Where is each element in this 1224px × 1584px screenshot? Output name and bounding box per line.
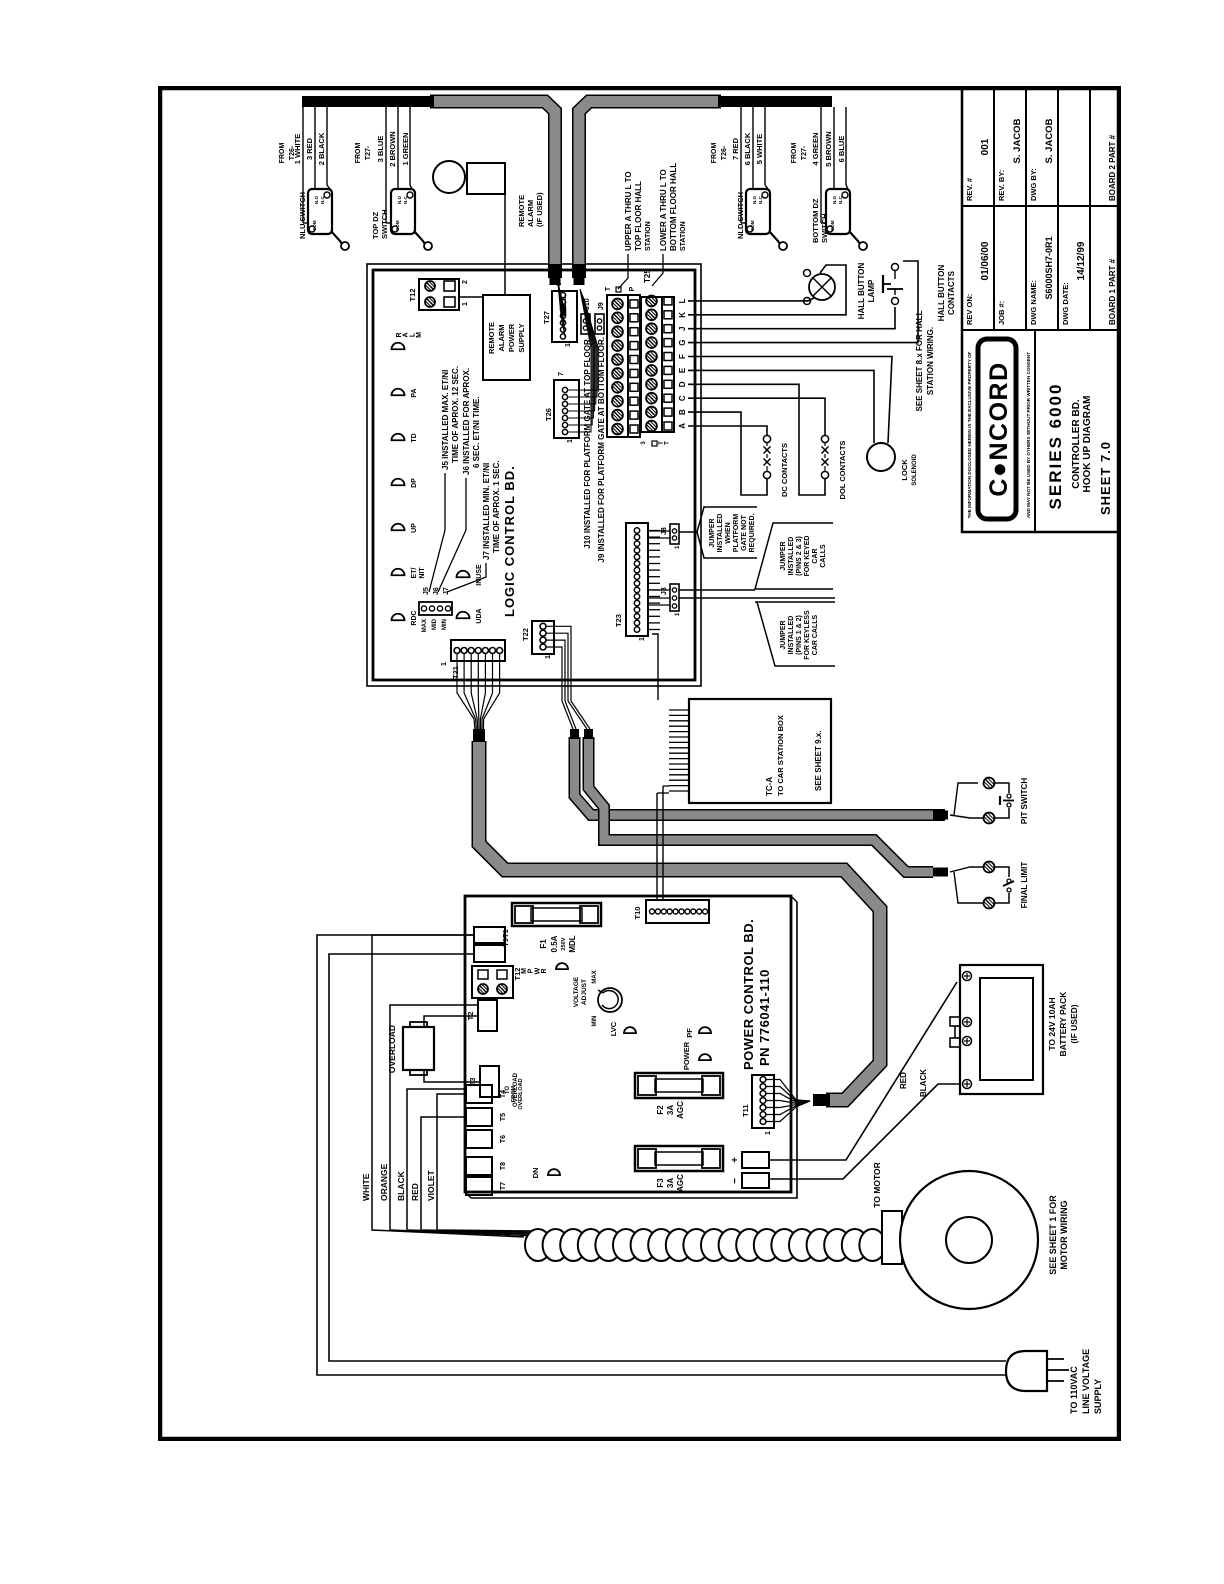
svg-text:HOOK UP DIAGRAM: HOOK UP DIAGRAM <box>1082 395 1093 492</box>
svg-text:REMOTE: REMOTE <box>487 322 496 354</box>
svg-text:LAMP: LAMP <box>867 279 876 302</box>
LED UDA <box>457 608 484 623</box>
wires T10 to TCA <box>657 786 669 900</box>
svg-text:TD: TD <box>411 433 418 442</box>
jumper block J5 J6 J7 <box>419 587 452 632</box>
border frame <box>160 88 1119 1439</box>
TC-A car station box <box>669 699 831 803</box>
note J5 <box>429 366 460 592</box>
svg-text:BOTTOM FLOOR HALL: BOTTOM FLOOR HALL <box>669 163 678 251</box>
svg-text:7 RED: 7 RED <box>731 137 740 160</box>
switch TOP DZ <box>355 107 432 250</box>
svg-text:(IF USED): (IF USED) <box>535 192 544 227</box>
svg-text:DN: DN <box>531 1168 540 1179</box>
terminal strip TDP <box>605 286 640 437</box>
jumper J3 <box>648 584 681 616</box>
svg-text:TC-A: TC-A <box>765 777 774 796</box>
svg-text:UDA: UDA <box>476 608 483 623</box>
svg-text:SOLENOID: SOLENOID <box>912 454 918 486</box>
svg-text:OVERLOAD: OVERLOAD <box>387 1025 397 1073</box>
svg-text:250V: 250V <box>561 937 567 950</box>
svg-text:N.O: N.O <box>314 196 319 205</box>
svg-text:J5 INSTALLED MAX. ET/NI: J5 INSTALLED MAX. ET/NI <box>441 370 450 470</box>
svg-text:T10: T10 <box>633 907 642 920</box>
hall button lamp <box>804 262 877 319</box>
svg-text:HALL BUTTON: HALL BUTTON <box>857 262 866 319</box>
svg-text:0.5A: 0.5A <box>550 935 559 952</box>
leader LOWER hall station <box>652 163 687 286</box>
svg-text:TO 110VAC: TO 110VAC <box>1069 1366 1079 1414</box>
wire F to lock solenoid <box>688 357 892 444</box>
svg-text:MAX: MAX <box>592 970 598 983</box>
svg-text:FROM: FROM <box>711 143 718 164</box>
svg-text:WHEN: WHEN <box>725 522 732 543</box>
svg-text:DP: DP <box>411 478 418 488</box>
svg-text:DOL CONTACTS: DOL CONTACTS <box>838 441 847 500</box>
svg-text:(IF USED): (IF USED) <box>1069 1004 1079 1043</box>
title SERIES 6000 <box>1046 383 1113 515</box>
wire RED <box>410 1117 533 1233</box>
svg-text:T27-: T27- <box>801 145 808 160</box>
svg-text:3A: 3A <box>666 1105 675 1115</box>
terminal T5 <box>466 1108 507 1126</box>
svg-text:J: J <box>678 326 687 330</box>
LED DP <box>392 478 419 488</box>
svg-text:OVERLOAD: OVERLOAD <box>518 1078 524 1109</box>
connector T26 <box>544 372 579 443</box>
svg-text:DWG NAME:: DWG NAME: <box>1029 280 1038 325</box>
leader UPPER hall station <box>618 171 652 289</box>
svg-text:2 BLACK: 2 BLACK <box>317 132 326 165</box>
svg-text:TOP FLOOR HALL: TOP FLOOR HALL <box>634 181 643 251</box>
svg-text:N.O: N.O <box>752 196 757 205</box>
svg-text:3 BLUE: 3 BLUE <box>376 136 385 163</box>
svg-text:ADJUST: ADJUST <box>581 979 588 1005</box>
svg-text:VOLTAGE: VOLTAGE <box>573 976 580 1007</box>
svg-text:(PINS 2 & 3): (PINS 2 & 3) <box>796 536 803 576</box>
wire J3 down <box>679 590 835 598</box>
svg-text:INUSE: INUSE <box>476 564 483 586</box>
gray bus 1 <box>430 102 555 286</box>
note J7 <box>447 460 501 592</box>
svg-text:1: 1 <box>545 655 552 659</box>
terminal T8 <box>466 1157 507 1175</box>
svg-text:P: P <box>629 286 636 291</box>
svg-text:BLACK: BLACK <box>919 1069 928 1097</box>
svg-text:SHEET 7.0: SHEET 7.0 <box>1098 441 1113 515</box>
wire supply to alarm <box>459 194 505 297</box>
LED PA <box>392 388 419 397</box>
svg-text:−: − <box>730 1178 741 1184</box>
svg-text:J9 INSTALLED FOR PLATFORM GATE: J9 INSTALLED FOR PLATFORM GATE AT BOTTOM… <box>597 337 606 563</box>
battery wire red <box>769 982 957 1160</box>
svg-text:MOTOR WIRING: MOTOR WIRING <box>1059 1200 1069 1269</box>
svg-text:F2: F2 <box>656 1105 665 1115</box>
overload device <box>387 1022 434 1075</box>
logic control board outline <box>367 264 701 686</box>
svg-text:LOWER A THRU L TO: LOWER A THRU L TO <box>659 169 668 251</box>
svg-text:6: 6 <box>556 282 563 286</box>
svg-text:SERIES 6000: SERIES 6000 <box>1046 383 1065 510</box>
svg-text:T23: T23 <box>614 614 623 627</box>
svg-text:NLU SWITCH: NLU SWITCH <box>298 192 307 239</box>
svg-text:JUMPER: JUMPER <box>780 541 787 570</box>
svg-text:POWER: POWER <box>682 1041 691 1070</box>
svg-text:B: B <box>678 409 687 415</box>
svg-text:WHITE: WHITE <box>361 1173 371 1201</box>
svg-text:J6 INSTALLED FOR APROX.: J6 INSTALLED FOR APROX. <box>462 368 471 475</box>
svg-text:FOR KEYLESS: FOR KEYLESS <box>804 610 811 660</box>
svg-text:TOP DZ: TOP DZ <box>371 211 380 239</box>
gray bus B <box>589 729 949 872</box>
power cord <box>317 935 1006 1375</box>
terminal battery minus <box>730 1173 769 1188</box>
wire G to hall contacts <box>688 261 918 343</box>
black bus upper <box>302 96 434 107</box>
svg-text:(PINS 1 & 2): (PINS 1 & 2) <box>796 615 803 655</box>
LED RDC <box>392 610 419 625</box>
remote alarm bell <box>433 161 544 227</box>
wire E to lock solenoid <box>688 370 874 443</box>
jumper J9 <box>595 302 606 563</box>
svg-text:POWER CONTROL BD.: POWER CONTROL BD. <box>741 919 756 1070</box>
svg-text:J9: J9 <box>598 302 605 310</box>
svg-text:E: E <box>678 367 687 373</box>
svg-text:CALLS: CALLS <box>820 544 827 568</box>
svg-text:F3: F3 <box>656 1178 665 1188</box>
wire C to DOL contacts <box>688 398 825 435</box>
connector T22 <box>521 621 554 659</box>
connector T23 <box>614 523 660 641</box>
svg-text:3 RED: 3 RED <box>305 137 314 160</box>
svg-text:FROM: FROM <box>279 143 286 164</box>
svg-text:ORANGE: ORANGE <box>379 1163 389 1201</box>
svg-text:SUPPLY: SUPPLY <box>1093 1379 1103 1414</box>
svg-text:BOARD 2 PART #: BOARD 2 PART # <box>1108 134 1117 201</box>
LED MPWR <box>521 963 568 974</box>
svg-text:TIME OF APROX. 12 SEC.: TIME OF APROX. 12 SEC. <box>451 366 460 463</box>
svg-text:CAR CALLS: CAR CALLS <box>812 614 819 655</box>
svg-text:FROM: FROM <box>355 143 362 164</box>
svg-text:FROM: FROM <box>511 1085 517 1102</box>
note J6 <box>438 368 481 592</box>
wire overload to T2 <box>424 1016 478 1027</box>
jumper J10 <box>581 298 592 549</box>
switch NLU <box>279 107 349 250</box>
svg-text:STATION: STATION <box>645 221 652 251</box>
svg-text:C: C <box>678 395 687 401</box>
svg-text:ALARM: ALARM <box>526 200 535 227</box>
wire B return DC <box>688 412 767 495</box>
CONCORD logo <box>967 339 1031 519</box>
svg-text:S. JACOB: S. JACOB <box>1012 118 1023 163</box>
svg-text:T12: T12 <box>408 289 417 302</box>
svg-text:14/12/99: 14/12/99 <box>1076 241 1087 280</box>
svg-text:1 WHITE: 1 WHITE <box>293 134 302 164</box>
svg-text:CONTROLLER BD.: CONTROLLER BD. <box>1071 399 1082 489</box>
svg-text:SWITCH: SWITCH <box>820 213 829 243</box>
switch NLD <box>711 107 787 250</box>
svg-text:T26-: T26- <box>721 145 728 160</box>
svg-text:LINE VOLTAGE: LINE VOLTAGE <box>1081 1349 1091 1414</box>
balloon jumper platform gate <box>679 507 757 558</box>
svg-text:T27: T27 <box>542 311 551 324</box>
svg-text:JUMPER: JUMPER <box>709 518 716 547</box>
svg-text:1 GREEN: 1 GREEN <box>401 133 410 166</box>
svg-text:BOARD 1 PART #: BOARD 1 PART # <box>1108 258 1117 325</box>
svg-text:LVC: LVC <box>609 1021 618 1036</box>
fan bus1 to T27 <box>558 283 566 337</box>
balloon keyed car calls <box>755 523 833 589</box>
svg-text:001: 001 <box>980 138 991 155</box>
wire A to DC contacts <box>688 426 767 435</box>
svg-text:PLATFORM: PLATFORM <box>733 514 740 553</box>
svg-text:T8: T8 <box>500 1162 507 1170</box>
svg-text:MDL: MDL <box>568 935 577 952</box>
wire overload to T3 <box>424 1070 480 1082</box>
svg-text:J7 INSTALLED MIN. ET/NI: J7 INSTALLED MIN. ET/NI <box>482 463 491 560</box>
svg-text:REV. #: REV. # <box>965 177 974 201</box>
LED UP <box>392 523 419 533</box>
svg-text:T25: T25 <box>643 269 652 283</box>
svg-text:STATION WIRING.: STATION WIRING. <box>926 327 935 395</box>
LED LVC <box>609 1021 636 1036</box>
svg-text:G: G <box>678 339 687 345</box>
svg-text:INSTALLED: INSTALLED <box>717 514 724 553</box>
svg-text:REQUIRED.: REQUIRED. <box>749 514 756 553</box>
terminal battery plus <box>730 1152 769 1168</box>
terminal T7 <box>466 1177 507 1195</box>
svg-text:N.C: N.C <box>403 196 408 205</box>
terminal strip T25 <box>641 269 687 446</box>
svg-text:CAR: CAR <box>812 548 819 563</box>
svg-text:COM: COM <box>830 220 835 231</box>
jumper J8 <box>648 524 681 549</box>
svg-text:SEE SHEET 9.x.: SEE SHEET 9.x. <box>814 731 823 791</box>
LED PF <box>685 1027 711 1038</box>
svg-text:+: + <box>730 1157 741 1163</box>
svg-text:T22: T22 <box>521 628 530 641</box>
LED TD <box>392 433 419 442</box>
svg-text:1: 1 <box>565 343 572 347</box>
LED DN <box>531 1168 560 1179</box>
svg-text:SEE SHEET 1 FOR: SEE SHEET 1 FOR <box>1048 1195 1058 1275</box>
gray bus A <box>575 729 949 815</box>
svg-text:UP: UP <box>411 523 418 533</box>
hall button contacts <box>883 264 956 322</box>
LED INUSE <box>457 564 484 586</box>
svg-text:TO MOTOR: TO MOTOR <box>872 1162 882 1208</box>
title block grid <box>962 88 1119 532</box>
DC contacts <box>763 435 789 497</box>
svg-text:FOR KEYED: FOR KEYED <box>804 536 811 577</box>
svg-text:ET/: ET/ <box>411 568 418 579</box>
svg-text:R: R <box>541 968 548 973</box>
svg-text:T21: T21 <box>451 666 460 679</box>
svg-text:AGC: AGC <box>676 1101 685 1119</box>
power control board outline <box>465 896 797 1198</box>
svg-text:5 WHITE: 5 WHITE <box>755 134 764 164</box>
svg-text:RED: RED <box>899 1072 908 1089</box>
battery pack <box>950 965 1079 1094</box>
svg-text:BOTTOM DZ: BOTTOM DZ <box>811 198 820 243</box>
svg-text:BLACK: BLACK <box>396 1170 406 1201</box>
svg-text:DWG DATE:: DWG DATE: <box>1061 282 1070 325</box>
svg-text:1: 1 <box>639 637 646 641</box>
svg-text:K: K <box>678 312 687 318</box>
svg-text:1: 1 <box>765 1131 772 1135</box>
svg-text:T26: T26 <box>544 408 553 421</box>
svg-text:SEE SHEET 8.x FOR HALL: SEE SHEET 8.x FOR HALL <box>915 310 924 411</box>
svg-text:AND MAY NOT BE USED BY OTHERS: AND MAY NOT BE USED BY OTHERS WITHOUT PR… <box>1026 352 1031 518</box>
svg-text:1: 1 <box>462 302 469 306</box>
connector T11 <box>741 1075 774 1135</box>
svg-text:M: M <box>416 332 423 338</box>
svg-text:J10: J10 <box>584 298 591 310</box>
terminal T4 <box>466 1078 524 1109</box>
wire ORANGE <box>379 1005 527 1236</box>
remote alarm power supply <box>483 295 530 380</box>
pit switch <box>950 778 1029 825</box>
connector T27 <box>542 282 577 347</box>
svg-text:PA: PA <box>411 388 418 397</box>
svg-text:THE INFORMATION DISCLOSED HERE: THE INFORMATION DISCLOSED HEREIN IS THE … <box>967 351 972 518</box>
gray bus C <box>479 729 880 1100</box>
black bus lower <box>718 96 832 107</box>
wire T23 to TCA <box>652 634 658 700</box>
svg-text:T7: T7 <box>500 1182 507 1190</box>
svg-text:NIT: NIT <box>419 567 426 579</box>
plug 110VAC <box>1006 1349 1103 1414</box>
svg-text:UPPER A THRU L TO: UPPER A THRU L TO <box>624 171 633 251</box>
wire J to hall contacts <box>688 307 895 329</box>
svg-text:F: F <box>678 354 687 359</box>
svg-text:REV. BY:: REV. BY: <box>997 170 1006 201</box>
lock solenoid <box>867 443 918 486</box>
svg-text:5 BROWN: 5 BROWN <box>824 131 833 166</box>
svg-text:MAX: MAX <box>422 619 428 632</box>
fuse F2 <box>635 1073 723 1119</box>
LED RALM <box>392 332 423 349</box>
svg-text:1: 1 <box>675 612 681 616</box>
svg-text:COM: COM <box>395 220 400 231</box>
svg-text:PIT SWITCH: PIT SWITCH <box>1020 778 1029 824</box>
svg-text:TIME OF APROX. 1 SEC.: TIME OF APROX. 1 SEC. <box>492 460 501 553</box>
svg-text:6 BLACK: 6 BLACK <box>743 132 752 165</box>
svg-text:BATTERY PACK: BATTERY PACK <box>1058 991 1068 1057</box>
svg-text:JOB #:: JOB #: <box>997 301 1006 325</box>
LED POWER <box>682 1041 711 1070</box>
svg-text:DWG BY:: DWG BY: <box>1029 168 1038 201</box>
title text REV ON <box>965 236 1117 325</box>
svg-text:MIN: MIN <box>592 1016 598 1027</box>
svg-text:S. JACOB: S. JACOB <box>1044 118 1055 163</box>
svg-text:HALL BUTTON: HALL BUTTON <box>937 264 946 321</box>
fuse F3 <box>635 1146 723 1192</box>
svg-text:N.O: N.O <box>832 196 837 205</box>
svg-text:01/06/00: 01/06/00 <box>980 241 991 280</box>
fan T21 to bus C <box>457 654 500 730</box>
svg-text:N.C: N.C <box>320 196 325 205</box>
terminal T9T1 <box>474 927 510 962</box>
svg-text:RED: RED <box>410 1183 420 1201</box>
terminal T6 <box>466 1130 507 1148</box>
svg-text:T11: T11 <box>741 1104 750 1117</box>
svg-text:VIOLET: VIOLET <box>426 1169 436 1201</box>
svg-text:T6: T6 <box>500 1135 507 1143</box>
svg-text:1: 1 <box>441 662 448 666</box>
svg-text:F1: F1 <box>539 939 548 949</box>
title text REV# <box>965 118 1117 201</box>
svg-text:C●NCORD: C●NCORD <box>985 361 1013 496</box>
wire WHITE <box>361 935 524 1237</box>
svg-text:TO CAR STATION BOX: TO CAR STATION BOX <box>776 715 785 796</box>
fan T11 to bus C <box>766 1080 810 1122</box>
svg-text:N.O: N.O <box>397 196 402 205</box>
svg-text:1: 1 <box>675 545 681 549</box>
note see sheet 8x <box>915 310 935 411</box>
svg-text:INSTALLED: INSTALLED <box>788 616 795 655</box>
final limit switch <box>950 862 1029 909</box>
svg-text:NLD SWITCH: NLD SWITCH <box>736 192 745 239</box>
battery wire black <box>769 1069 960 1179</box>
svg-text:MIN: MIN <box>442 619 448 630</box>
svg-text:STATION: STATION <box>680 221 687 251</box>
connector T10 <box>633 900 709 923</box>
svg-text:GATE NOT: GATE NOT <box>741 514 748 550</box>
terminal T12 power <box>472 966 522 998</box>
svg-text:FROM: FROM <box>791 143 798 164</box>
svg-text:LOCK: LOCK <box>900 459 909 481</box>
svg-text:FINAL LIMIT: FINAL LIMIT <box>1020 862 1029 909</box>
svg-text:DC CONTACTS: DC CONTACTS <box>780 443 789 497</box>
svg-text:T27-: T27- <box>365 145 372 160</box>
svg-text:INSTALLED: INSTALLED <box>788 537 795 576</box>
wire BLACK <box>396 1089 530 1234</box>
svg-text:CONTACTS: CONTACTS <box>947 270 956 315</box>
svg-text:COM: COM <box>750 220 755 231</box>
wire VIOLET <box>426 1094 536 1231</box>
svg-text:3A: 3A <box>666 1178 675 1188</box>
svg-text:6 SEC. ET/NI TIME.: 6 SEC. ET/NI TIME. <box>472 396 481 468</box>
svg-text:POWER: POWER <box>507 323 516 352</box>
svg-text:T4: T4 <box>500 1090 507 1098</box>
switch BOTTOM DZ <box>791 107 867 250</box>
label LOGIC CONTROL BD. <box>502 465 517 617</box>
svg-text:SUPPLY: SUPPLY <box>517 323 526 352</box>
svg-text:S6000SH7-0R1: S6000SH7-0R1 <box>1044 236 1054 299</box>
svg-text:6 BLUE: 6 BLUE <box>837 136 846 163</box>
svg-text:D: D <box>678 381 687 387</box>
svg-text:REV ON:: REV ON: <box>965 294 974 325</box>
balloon keyless car calls <box>755 602 835 666</box>
coiled cord to motor <box>525 1229 885 1261</box>
fan T22 to buses <box>546 626 590 729</box>
motor cable entry <box>882 1211 902 1264</box>
DOL contacts <box>821 435 847 499</box>
svg-text:LOGIC CONTROL BD.: LOGIC CONTROL BD. <box>502 465 517 617</box>
fuse F1 <box>512 903 601 953</box>
terminal T2 <box>466 1000 497 1031</box>
svg-text:J3: J3 <box>661 587 668 595</box>
label POWER CONTROL BD <box>741 919 772 1070</box>
svg-text:L: L <box>678 298 687 303</box>
connector T21 <box>441 640 505 679</box>
svg-text:2: 2 <box>462 280 469 284</box>
svg-text:MID: MID <box>432 618 438 630</box>
svg-text:T: T <box>665 441 671 445</box>
svg-text:4 GREEN: 4 GREEN <box>811 133 820 166</box>
